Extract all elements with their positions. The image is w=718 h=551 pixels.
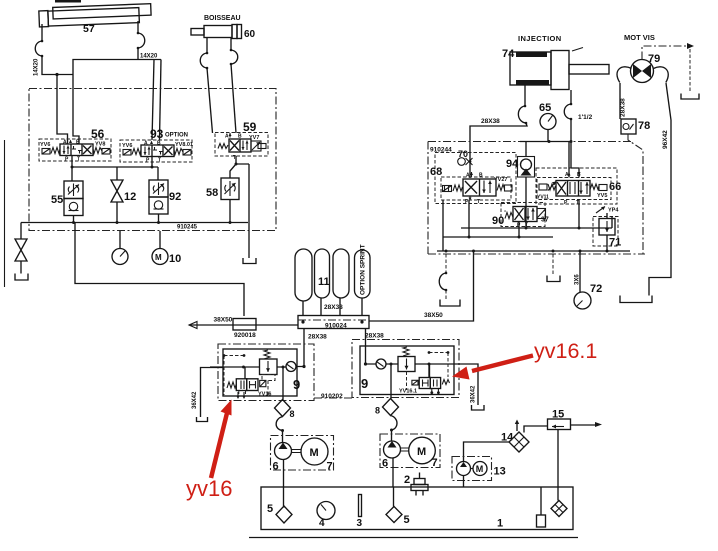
wire top header xyxy=(73,60,161,75)
hydraulic motor 79 xyxy=(631,60,654,83)
svg-text:14X20: 14X20 xyxy=(34,58,40,76)
svg-text:13: 13 xyxy=(494,466,506,478)
accumulator 3 xyxy=(333,249,349,298)
inner box xyxy=(223,349,297,396)
wire valve93 P down xyxy=(151,157,153,167)
shutoff valve left xyxy=(15,239,27,261)
pilot check 70 xyxy=(458,158,466,166)
wire left leg xyxy=(20,223,22,240)
internal dashed R xyxy=(407,353,449,391)
wire 92 down xyxy=(158,214,160,223)
sub-box 66 dashed xyxy=(536,168,617,204)
accumulator 2 (11) xyxy=(315,249,330,298)
wire valve56 to 55 xyxy=(71,156,73,181)
wire to valve56 A xyxy=(57,75,68,145)
tank bracket xyxy=(440,300,460,307)
tank bracket xyxy=(547,276,560,282)
valve U90 xyxy=(505,207,546,229)
hose loop R xyxy=(391,416,398,431)
arrow 38X50 xyxy=(189,322,197,329)
stray left page line xyxy=(4,140,6,287)
wire cyl60 right port xyxy=(230,38,232,50)
wire motor right down to tank xyxy=(649,83,671,296)
wire cyl74 right port xyxy=(570,90,572,104)
svg-text:96X42: 96X42 xyxy=(662,130,669,149)
svg-text:5: 5 xyxy=(404,514,410,526)
svg-text:OPTION: OPTION xyxy=(165,133,188,139)
sub-box 68 dashed xyxy=(435,153,516,204)
suction pipe 36X42 L xyxy=(201,368,224,418)
gauge 72 xyxy=(579,251,581,293)
relief valve R: body xyxy=(398,357,415,372)
wire pump13 to tank xyxy=(463,476,465,488)
wire 12 down xyxy=(116,202,118,223)
svg-text:93: 93 xyxy=(150,127,164,141)
svg-text:37: 37 xyxy=(541,217,549,224)
svg-text:60: 60 xyxy=(244,29,256,40)
wire xyxy=(42,56,73,75)
node junction xyxy=(55,73,58,76)
svg-text:T: T xyxy=(77,157,80,163)
svg-text:9: 9 xyxy=(293,377,300,392)
svg-text:36X42: 36X42 xyxy=(192,391,198,409)
bus wire xyxy=(21,222,248,224)
wire cyl57 left port xyxy=(41,24,43,41)
svg-text:11: 11 xyxy=(318,276,330,288)
internal dashed lines L xyxy=(224,356,268,396)
motor 7 xyxy=(301,438,328,465)
level gauge 3 xyxy=(359,495,362,517)
hose loop xyxy=(138,33,145,48)
hose loop xyxy=(518,106,526,123)
svg-text:58: 58 xyxy=(206,187,218,199)
svg-text:YV16: YV16 xyxy=(258,392,271,398)
hose loop xyxy=(564,104,571,119)
cylinder 74 xyxy=(510,48,609,90)
right valve block dash-dot boundary xyxy=(428,142,645,255)
svg-text:YV5: YV5 xyxy=(597,193,607,199)
svg-text:4: 4 xyxy=(319,518,325,529)
node xyxy=(301,320,304,323)
connector dash-dot between units xyxy=(314,397,352,399)
svg-text:920018: 920018 xyxy=(234,332,256,339)
bus wire middle xyxy=(443,236,553,238)
bracket xyxy=(681,94,699,100)
svg-text:7: 7 xyxy=(327,461,333,473)
svg-text:28X38: 28X38 xyxy=(308,334,327,341)
svg-text:YV8.01: YV8.01 xyxy=(175,142,193,148)
suction filter 5 left xyxy=(276,506,292,523)
svg-text:YV8: YV8 xyxy=(95,142,105,148)
wire 90 down xyxy=(518,222,520,238)
motor M10 xyxy=(159,231,161,249)
svg-text:YV16.1: YV16.1 xyxy=(399,389,417,395)
svg-text:910024: 910024 xyxy=(325,323,347,330)
wire 71 xyxy=(607,213,612,251)
svg-text:3: 3 xyxy=(357,518,363,529)
tank bracket xyxy=(197,417,208,422)
svg-text:M: M xyxy=(417,446,426,458)
drain dashed to tank xyxy=(552,254,554,275)
flow control valve 92 xyxy=(149,180,168,214)
pump R xyxy=(384,441,401,458)
wire pump R to tank xyxy=(392,458,394,487)
wire xyxy=(137,48,139,60)
svg-text:1'1/2: 1'1/2 xyxy=(578,114,593,121)
return riser from 15 xyxy=(557,430,559,501)
shutoff valve 12 xyxy=(111,180,123,202)
svg-text:28X38: 28X38 xyxy=(324,304,343,311)
svg-text:A: A xyxy=(466,173,470,179)
pump L xyxy=(275,443,292,460)
shaft xyxy=(292,450,302,453)
svg-text:910245: 910245 xyxy=(177,225,198,231)
thermometer 4 xyxy=(317,502,335,520)
check valve L xyxy=(286,362,296,372)
svg-text:56: 56 xyxy=(91,127,105,141)
motor 7 R xyxy=(409,437,436,464)
svg-text:59: 59 xyxy=(243,120,257,134)
main line R xyxy=(366,364,455,377)
svg-text:M: M xyxy=(476,464,484,474)
svg-text:T: T xyxy=(477,199,480,205)
svg-text:5: 5 xyxy=(267,503,273,515)
solenoid valve YV16 xyxy=(227,379,266,394)
wire valve68 drain xyxy=(442,200,444,251)
svg-text:92: 92 xyxy=(169,191,181,203)
wire cross header to 12 and 92 xyxy=(72,167,158,180)
svg-text:3X6: 3X6 xyxy=(575,274,581,285)
pressure switch 78 xyxy=(621,119,636,134)
wire 94 top xyxy=(525,142,527,157)
wire riser to distribution xyxy=(75,223,244,317)
wire valve66 B from cylinder xyxy=(571,142,579,178)
hose loop xyxy=(200,53,207,68)
wire valve66 A riser xyxy=(568,142,570,178)
svg-text:M: M xyxy=(155,253,162,262)
wire drop to left pump unit xyxy=(303,329,305,367)
tank bracket xyxy=(472,405,485,410)
valve U66 (YV11/YV5) xyxy=(537,172,611,206)
svg-text:68: 68 xyxy=(430,166,442,178)
wire top header inside block xyxy=(520,141,571,143)
pressure gauge xyxy=(119,231,121,249)
svg-text:INJECTION: INJECTION xyxy=(518,34,562,43)
tank bracket xyxy=(243,258,256,264)
hose loop L xyxy=(276,417,282,431)
wire cyl60 left port xyxy=(206,38,208,53)
cylinder 60 xyxy=(191,29,204,36)
red arrow yv16 xyxy=(211,413,227,478)
wire to filter R xyxy=(390,364,392,399)
svg-text:55: 55 xyxy=(51,194,63,206)
wire to valve66 xyxy=(570,119,572,142)
dash-dot from 78 to block xyxy=(628,134,643,167)
svg-text:38X50: 38X50 xyxy=(424,312,443,319)
svg-text:7: 7 xyxy=(432,457,438,469)
svg-text:9: 9 xyxy=(361,376,368,391)
wire to valve56 B xyxy=(73,75,79,145)
inner box xyxy=(360,346,454,395)
drain arrows L xyxy=(238,392,244,397)
svg-text:YV6: YV6 xyxy=(40,142,50,148)
red arrow yv16.1 xyxy=(472,356,533,372)
wire to tank bracket xyxy=(248,164,250,258)
filter 8 R xyxy=(383,399,399,416)
wire drop to right pump unit xyxy=(365,329,367,365)
svg-text:79: 79 xyxy=(648,53,660,65)
svg-text:BOISSEAU: BOISSEAU xyxy=(204,15,241,22)
svg-text:78: 78 xyxy=(638,120,650,132)
tank 1 xyxy=(261,487,573,530)
svg-text:65: 65 xyxy=(539,102,551,114)
svg-text:YV11: YV11 xyxy=(537,195,549,201)
svg-text:28X38: 28X38 xyxy=(481,118,500,125)
wire valve68 P down xyxy=(468,201,470,238)
hose loop xyxy=(35,41,42,56)
svg-text:B: B xyxy=(479,173,483,179)
svg-text:72: 72 xyxy=(590,283,602,295)
wire valve to main R xyxy=(429,364,431,378)
tank bracket xyxy=(620,296,652,303)
svg-text:8: 8 xyxy=(290,409,295,419)
pump box L dash-dot xyxy=(271,436,334,471)
valve U68 (YV27) xyxy=(441,172,512,205)
svg-text:yv16.1: yv16.1 xyxy=(534,339,597,363)
svg-text:MOT VIS: MOT VIS xyxy=(624,33,655,42)
svg-text:28X38: 28X38 xyxy=(365,333,384,340)
svg-text:910202: 910202 xyxy=(321,393,343,400)
wire to valve59 B xyxy=(231,64,236,133)
wire to filter L xyxy=(282,367,284,400)
svg-text:T: T xyxy=(158,158,161,164)
accumulator 1 xyxy=(295,249,312,301)
svg-text:yv16: yv16 xyxy=(186,476,232,501)
svg-text:YP4: YP4 xyxy=(608,208,619,214)
hose loop xyxy=(231,50,238,64)
cylinder 57 xyxy=(39,4,152,27)
wire to valve93 B xyxy=(160,60,162,141)
svg-text:71: 71 xyxy=(609,237,621,249)
wire motor left down xyxy=(619,83,621,119)
svg-text:8: 8 xyxy=(375,406,380,416)
svg-text:90: 90 xyxy=(492,215,504,227)
relief valve R: spring xyxy=(403,347,409,356)
wire valve to main L xyxy=(244,367,246,379)
wire pump L to tank xyxy=(283,460,285,488)
relief valve L: body xyxy=(260,359,278,375)
svg-text:1: 1 xyxy=(497,518,503,530)
svg-text:36X42: 36X42 xyxy=(471,385,477,403)
svg-text:6: 6 xyxy=(382,458,388,470)
flow control valve 58 xyxy=(221,178,239,200)
drop tube xyxy=(540,487,542,515)
svg-text:10: 10 xyxy=(169,253,181,265)
manifold block 910024 xyxy=(298,316,369,329)
valve U59 (directional, YV7) xyxy=(215,133,268,162)
pilot check 94 xyxy=(518,157,535,178)
coupling block 920018 xyxy=(233,319,256,331)
svg-text:14X20: 14X20 xyxy=(140,54,158,60)
partial cut text above cylinder xyxy=(55,0,81,3)
hose motor left xyxy=(617,67,631,83)
relief valve L: spring xyxy=(264,350,270,359)
wire 58 down xyxy=(229,200,231,223)
pump box R dash-dot xyxy=(380,434,440,468)
left system dash-dot boundary box xyxy=(29,89,276,231)
svg-text:6: 6 xyxy=(273,461,279,473)
right pump unit dash-dot box xyxy=(352,340,459,398)
left pump unit 910202 dash-dot box xyxy=(218,344,314,401)
pump unit 13 xyxy=(452,457,492,481)
flow control valve 55 xyxy=(64,181,83,216)
wire main distribution line xyxy=(189,251,474,325)
svg-text:OPTION SPRINT: OPTION SPRINT xyxy=(360,244,367,295)
sub-box 90 dashed xyxy=(501,203,545,227)
relief YP4 71 xyxy=(596,207,605,214)
suction filter 5 right xyxy=(386,507,402,523)
wire valve59 down xyxy=(230,156,249,178)
wire cyl74 left port xyxy=(524,85,526,106)
bus wire lower xyxy=(437,250,630,252)
wire 14 to pump 13 xyxy=(464,442,510,462)
wire 55 down xyxy=(73,216,75,223)
accumulator 4 OPTION SPRINT xyxy=(355,250,371,298)
wire valve66 T down xyxy=(578,200,580,229)
suction pipe 36X42 R xyxy=(454,364,478,405)
svg-text:74: 74 xyxy=(502,48,515,60)
node xyxy=(71,166,74,169)
filter 8 L xyxy=(275,400,291,417)
wire 28X38 header xyxy=(470,123,527,178)
valve U56 (directional 4/3, YV6/YV8) xyxy=(39,139,111,163)
check valve R xyxy=(376,359,386,369)
svg-text:M: M xyxy=(310,447,319,459)
svg-text:28X38: 28X38 xyxy=(620,98,627,117)
svg-text:38X50: 38X50 xyxy=(214,317,233,324)
svg-text:12: 12 xyxy=(124,191,136,203)
return diamond xyxy=(551,501,567,517)
wire to valve93 A xyxy=(152,60,154,141)
drain hose to tank xyxy=(445,254,447,273)
wire 94 down xyxy=(525,177,527,228)
valve U93 (directional 4/3, OPTION YV8.01) xyxy=(120,140,193,164)
svg-text:57: 57 xyxy=(83,23,95,35)
wire xyxy=(20,261,22,274)
main line L xyxy=(210,366,304,369)
svg-text:YV6: YV6 xyxy=(122,143,132,149)
svg-text:2: 2 xyxy=(404,474,410,486)
wire to valve59 A xyxy=(207,68,213,133)
solenoid valve YV16.1 xyxy=(412,378,450,395)
hose motor right xyxy=(654,67,669,83)
wire cyl57 right port xyxy=(137,21,139,33)
tank bracket xyxy=(15,274,28,281)
bus wire upper xyxy=(461,227,612,229)
dash-dot drive link xyxy=(642,46,687,60)
